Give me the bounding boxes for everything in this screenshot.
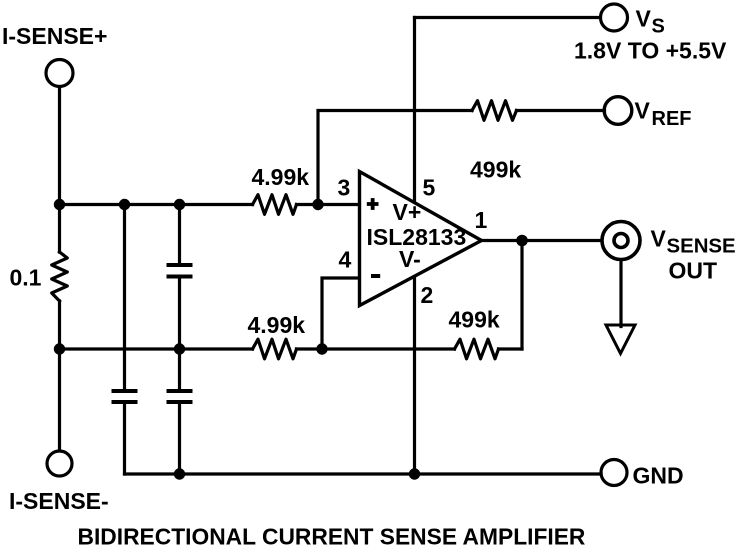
svg-text:4: 4 [339,247,352,273]
svg-text:2: 2 [421,282,434,308]
svg-text:5: 5 [423,175,436,201]
svg-text:V: V [651,226,667,252]
svg-text:V: V [636,6,652,32]
svg-text:I-SENSE+: I-SENSE+ [2,23,107,49]
svg-text:0.1: 0.1 [10,265,42,291]
svg-text:4.99k: 4.99k [252,164,310,190]
svg-text:1.8V TO +5.5V: 1.8V TO +5.5V [574,38,727,64]
svg-text:BIDIRECTIONAL CURRENT SENSE AM: BIDIRECTIONAL CURRENT SENSE AMPLIFIER [78,524,586,550]
svg-text:499k: 499k [470,157,521,183]
svg-text:OUT: OUT [669,258,718,284]
svg-text:V-: V- [399,246,421,272]
svg-text:S: S [652,16,665,38]
svg-text:3: 3 [338,175,351,201]
svg-text:4.99k: 4.99k [248,312,306,338]
svg-text:REF: REF [652,108,692,130]
svg-text:GND: GND [633,463,684,489]
svg-text:SENSE: SENSE [667,236,736,258]
svg-text:499k: 499k [449,307,500,333]
svg-text:I-SENSE-: I-SENSE- [9,488,109,514]
svg-text:V+: V+ [393,199,422,225]
svg-text:V: V [635,98,651,124]
svg-text:1: 1 [475,207,488,233]
